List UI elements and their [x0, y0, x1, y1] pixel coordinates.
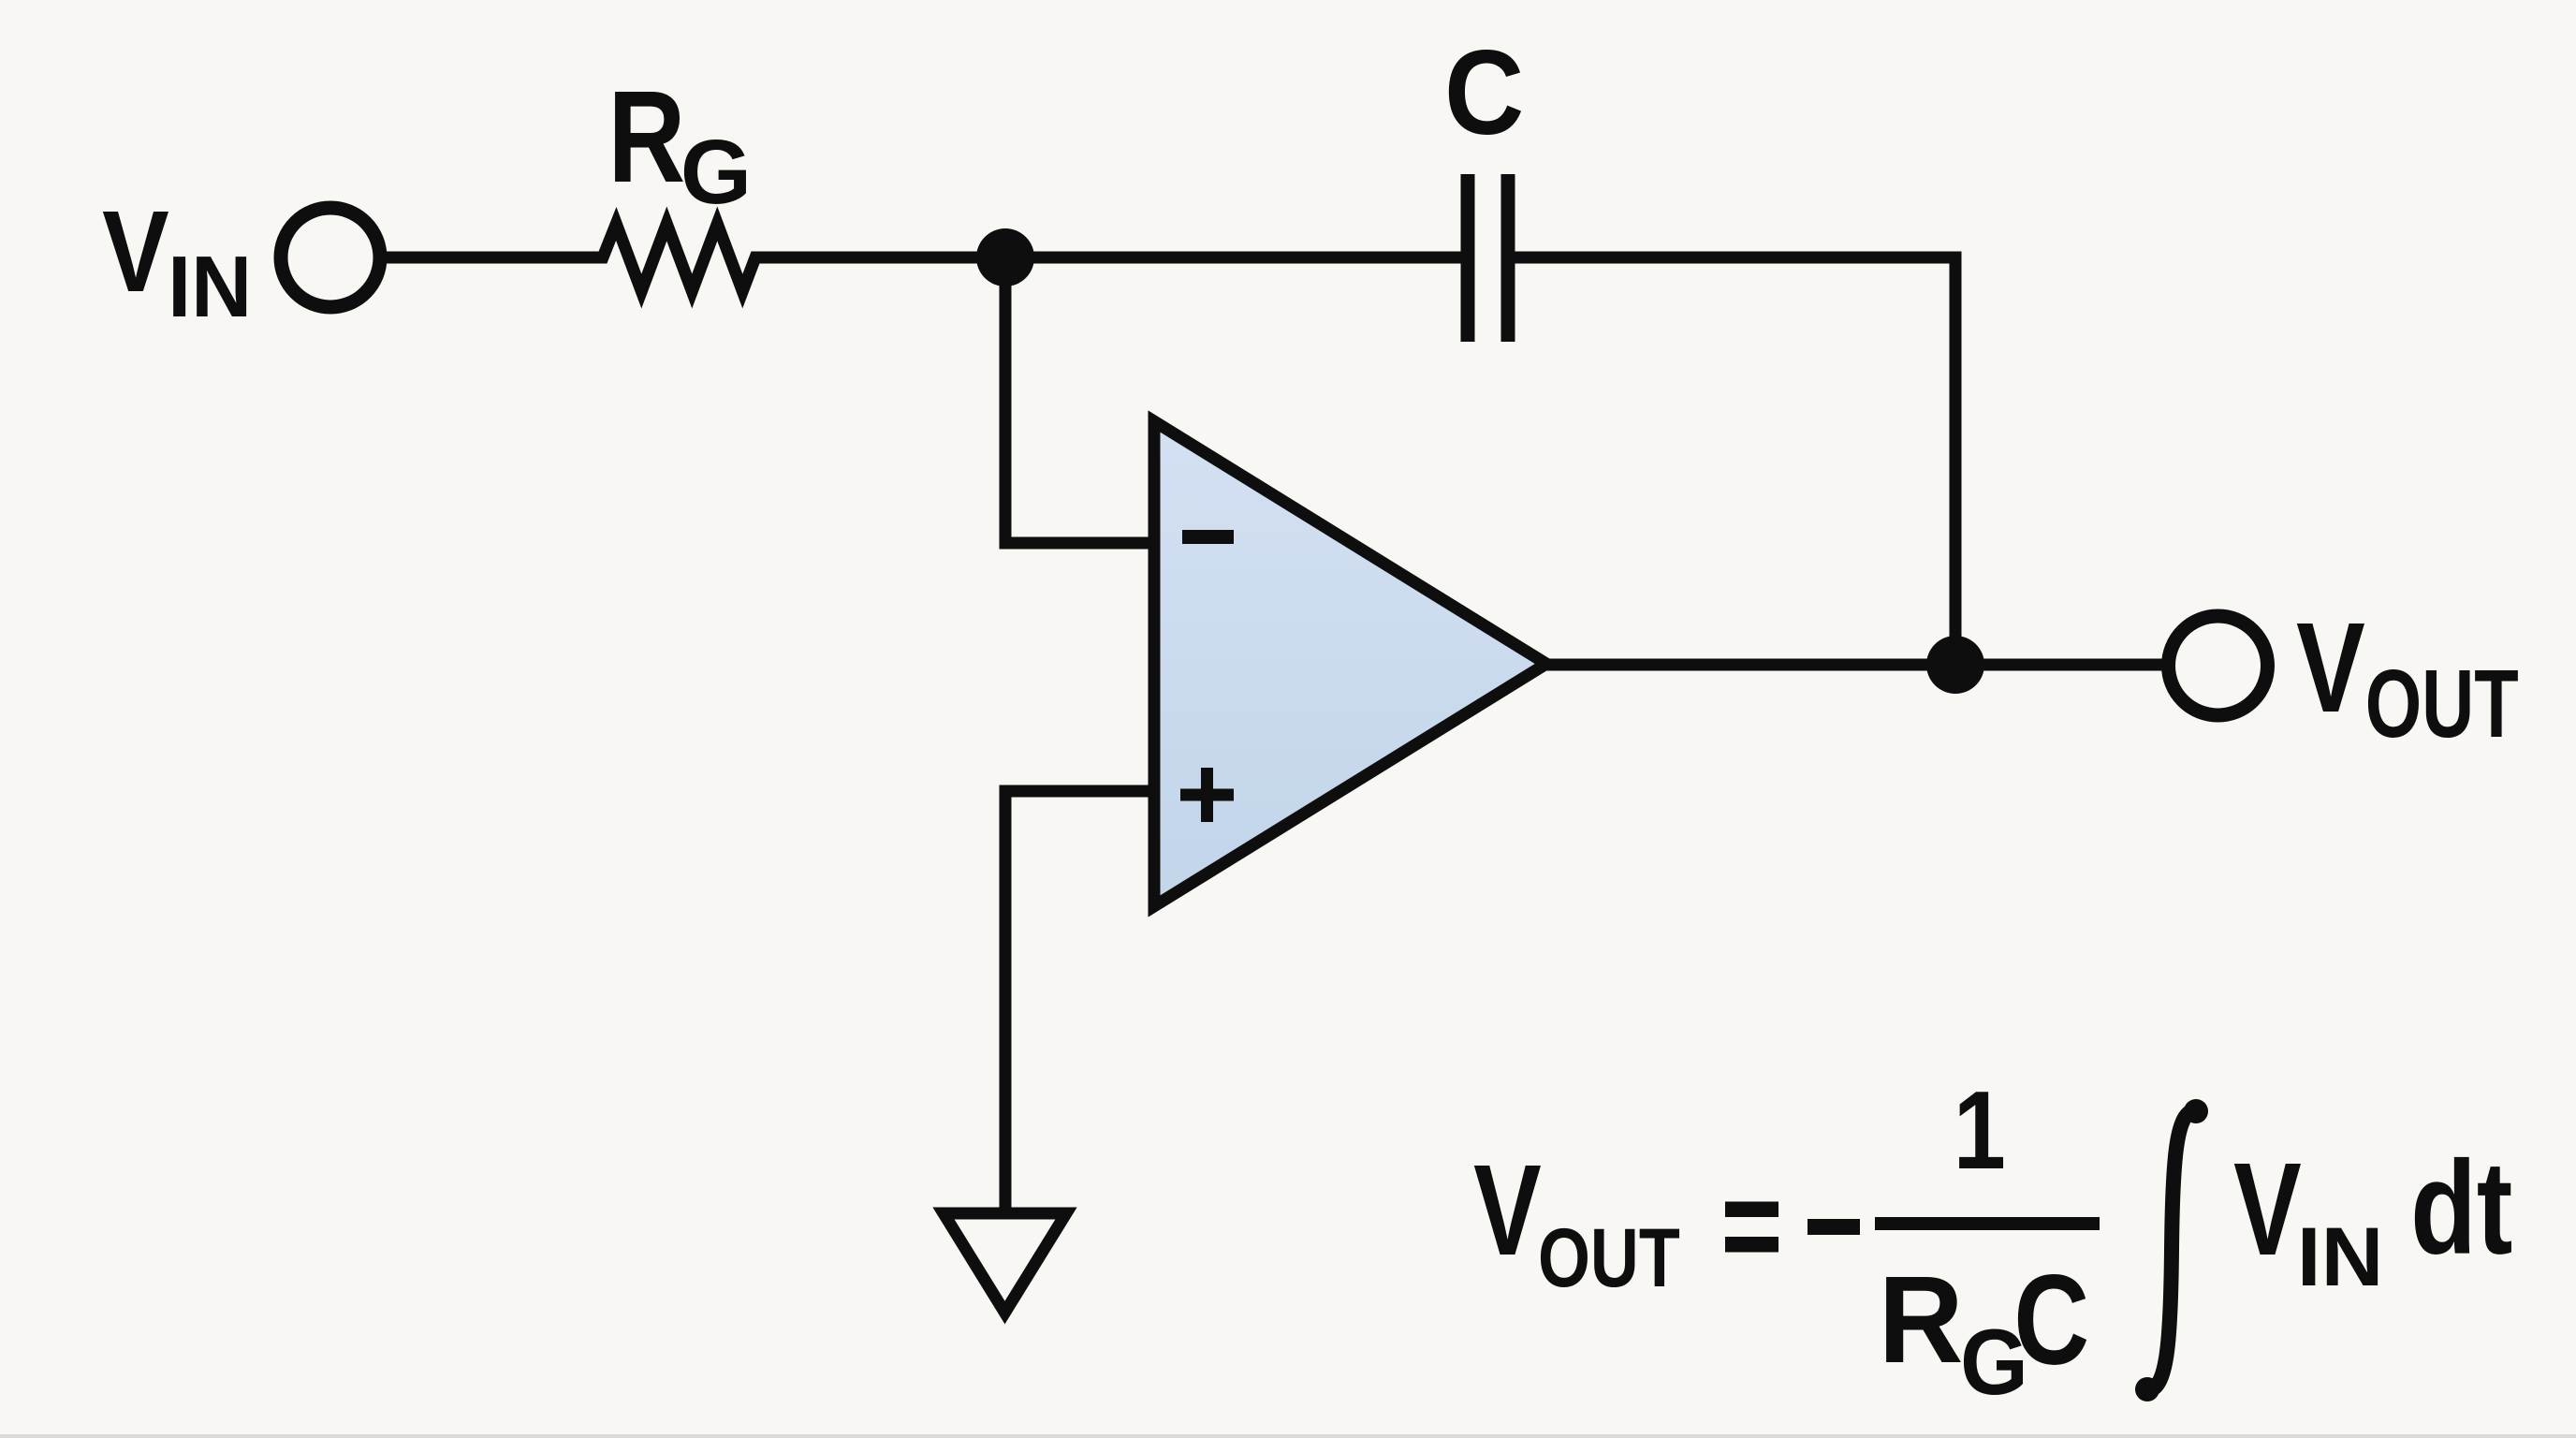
formula VOUT = -1/(RGC) integral VIN dt — [1473, 1068, 2512, 1414]
wire capacitor to corner and down to output — [1514, 257, 1955, 665]
svg-text:V: V — [2233, 1135, 2302, 1283]
svg-text:dt: dt — [2410, 1135, 2512, 1283]
svg-text:R: R — [1879, 1251, 1964, 1389]
op-amp U1 — [1154, 421, 1546, 906]
integral sign — [2147, 1110, 2196, 1390]
wire resistor to junction and capacitor — [767, 252, 1462, 264]
node B output junction dot — [1926, 636, 1984, 694]
op-amp minus pin label — [1182, 530, 1234, 544]
wire op-amp output to VOUT — [1544, 659, 2162, 671]
svg-text:G: G — [681, 121, 752, 223]
node VOUT terminal circle — [2169, 616, 2268, 715]
resistor RG — [582, 224, 776, 291]
wire junction down to inverting input — [1005, 257, 1151, 543]
svg-text:C: C — [2013, 1248, 2089, 1391]
node A junction dot — [976, 228, 1034, 286]
svg-text:C: C — [1444, 25, 1524, 160]
svg-text:V: V — [102, 186, 169, 316]
svg-text:V: V — [2296, 597, 2365, 740]
svg-text:IN: IN — [2297, 1211, 2383, 1304]
node VOUT terminal label — [2296, 597, 2519, 758]
capacitor C label — [1444, 25, 1524, 160]
wire noninverting input to ground — [1005, 791, 1151, 1211]
svg-text:IN: IN — [168, 239, 252, 336]
svg-text:1: 1 — [1954, 1068, 2006, 1193]
capacitor C — [1468, 174, 1508, 342]
svg-text:OUT: OUT — [1538, 1212, 1680, 1305]
node VIN terminal circle — [281, 208, 380, 307]
svg-text:OUT: OUT — [2365, 650, 2519, 757]
svg-text:V: V — [1473, 1138, 1542, 1283]
resistor RG label — [607, 64, 752, 223]
op-amp plus pin label — [1180, 768, 1234, 822]
svg-text:R: R — [607, 64, 685, 210]
wire VIN to resistor — [387, 252, 592, 264]
ground — [944, 1213, 1066, 1313]
node VIN terminal label — [102, 186, 252, 335]
